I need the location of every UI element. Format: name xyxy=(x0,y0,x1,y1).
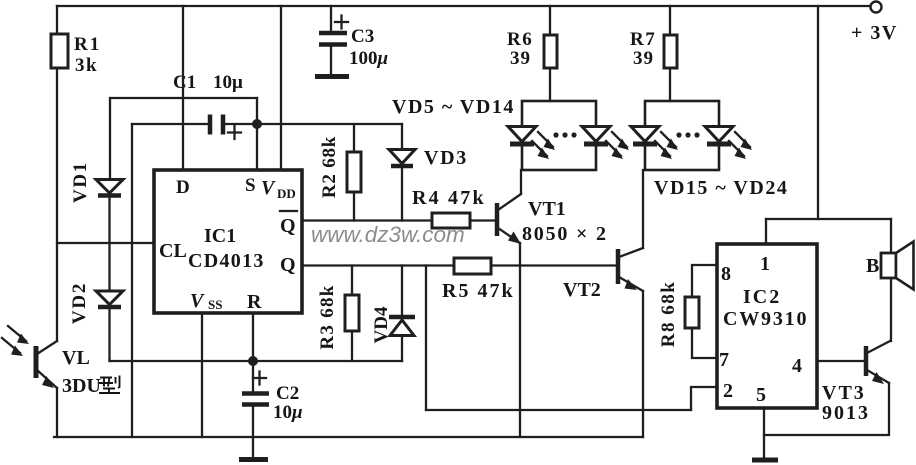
LED VD24 xyxy=(705,127,733,142)
wire VT1 collector to LED box1 xyxy=(520,170,522,193)
op-amp IC1 CD4013 box xyxy=(154,170,302,313)
svg-text:VT3: VT3 xyxy=(822,382,866,404)
wire R7 to LED box2 xyxy=(669,68,671,101)
diode VD3 xyxy=(401,124,403,148)
svg-text:7: 7 xyxy=(719,349,729,371)
wire R6 from rail xyxy=(549,6,551,35)
transistor VT3 xyxy=(864,346,869,376)
wire R5 to VT2 base xyxy=(491,264,616,266)
wire speaker to VT3 collector xyxy=(890,278,892,341)
capacitor C3 xyxy=(330,6,332,30)
wire pin2 stub xyxy=(691,387,717,410)
wire horizontal run to IC2 pin 2 xyxy=(426,409,691,411)
resistor R1 xyxy=(51,34,68,68)
svg-text:CL: CL xyxy=(159,240,187,262)
svg-text:VD5 ~ VD14: VD5 ~ VD14 xyxy=(392,96,515,118)
wire VT3 emitter to pin5 net xyxy=(764,383,889,435)
transistor VT1 xyxy=(495,203,500,236)
svg-text:VD15 ~ VD24: VD15 ~ VD24 xyxy=(654,177,788,199)
LED VD5 xyxy=(508,127,536,142)
wire R8 to pin7 xyxy=(692,328,717,358)
glyph 型 (hand drawn strokes) xyxy=(99,376,120,394)
wire VT1 emitter to ground rail xyxy=(519,243,521,437)
ground bar under C3 xyxy=(315,74,349,79)
svg-text:VD1: VD1 xyxy=(70,161,91,203)
svg-text:VL: VL xyxy=(62,347,90,369)
diode VD2 xyxy=(96,291,123,305)
ground bar under IC2 xyxy=(752,458,778,463)
ground bar under C2 xyxy=(239,457,268,462)
svg-text:VD4: VD4 xyxy=(371,306,392,343)
capacitor C1 xyxy=(132,123,207,125)
wire Q output to R5 xyxy=(302,264,454,266)
wire pin1 stub xyxy=(765,219,767,244)
svg-text:R5 47k: R5 47k xyxy=(442,280,515,302)
wire R3 branch xyxy=(351,266,353,296)
resistor R6 xyxy=(544,35,557,68)
wire VT2 emitter to ground rail xyxy=(642,291,644,437)
svg-text:R4 47k: R4 47k xyxy=(412,187,486,209)
wire left vertical rail to R1 xyxy=(56,6,58,34)
wire Q net down-branch to pin2 run xyxy=(425,266,427,411)
wire R6 to LED box1 xyxy=(549,68,551,101)
svg-text:www.dz3w.com: www.dz3w.com xyxy=(311,222,465,247)
wire speaker top lead xyxy=(890,219,892,253)
svg-text:IC1: IC1 xyxy=(204,225,236,247)
svg-text:R3 68k: R3 68k xyxy=(317,284,338,349)
wire R pin stub xyxy=(252,313,254,361)
wire VT2 collector to LED box2 xyxy=(642,170,644,248)
wire R2 bottom to Qbar net xyxy=(353,192,355,221)
wire pin4 to VT3 base xyxy=(817,360,864,362)
diode VD1 xyxy=(96,180,123,194)
transistor VT2 xyxy=(616,249,621,284)
svg-text:SS: SS xyxy=(208,297,222,312)
resistor R8 xyxy=(685,297,699,328)
wire R7 from rail xyxy=(669,6,671,35)
svg-text:D: D xyxy=(176,177,190,198)
svg-text:CW9310: CW9310 xyxy=(723,308,808,330)
node junction C1/S xyxy=(252,119,262,129)
svg-text:+ 3V: + 3V xyxy=(851,22,898,44)
svg-text:4: 4 xyxy=(792,355,802,377)
svg-text:2: 2 xyxy=(723,380,733,402)
wire R4 to VT1 base xyxy=(470,219,495,221)
svg-text:100μ: 100μ xyxy=(349,48,388,69)
wire top +3V rail xyxy=(57,5,870,7)
LED group box VD15~VD24 xyxy=(645,101,719,170)
svg-text:C3: C3 xyxy=(351,26,374,47)
diode VD4 xyxy=(401,266,403,316)
svg-text:10μ: 10μ xyxy=(213,72,243,93)
svg-text:9013: 9013 xyxy=(822,402,870,424)
wire R2 branch from S net xyxy=(257,124,402,152)
svg-text:CD4013: CD4013 xyxy=(188,250,265,272)
svg-text:5: 5 xyxy=(756,384,766,406)
dots box2 xyxy=(676,132,681,137)
svg-text:C2: C2 xyxy=(276,383,299,404)
svg-text:VT2: VT2 xyxy=(563,279,601,301)
dots box1 xyxy=(553,132,558,137)
svg-text:39: 39 xyxy=(633,48,654,69)
wire bottom ground rail xyxy=(54,436,643,438)
svg-text:R: R xyxy=(247,291,262,313)
wire reset net horizontal xyxy=(110,360,403,362)
svg-text:VT1: VT1 xyxy=(528,198,566,220)
wire VD2 down to reset net xyxy=(108,309,110,361)
wire VL emitter to ground rail xyxy=(56,388,58,437)
svg-text:3k: 3k xyxy=(75,55,98,76)
svg-text:8: 8 xyxy=(721,263,731,285)
wire pin8 stub xyxy=(692,265,717,297)
svg-text:VD2: VD2 xyxy=(69,282,90,324)
wire R3 bottom xyxy=(351,331,353,361)
svg-text:V: V xyxy=(261,177,276,199)
svg-text:10μ: 10μ xyxy=(273,402,303,423)
svg-text:R8 68k: R8 68k xyxy=(658,281,679,348)
wire pin5 stub xyxy=(763,408,765,458)
wire C1 left plate down to ground rail xyxy=(131,124,133,437)
LED group box VD5~VD14 xyxy=(522,101,596,170)
svg-text:DD: DD xyxy=(277,186,296,201)
wire VD1 to VD2 xyxy=(108,196,110,290)
node junction R/C2 xyxy=(248,356,258,366)
wire VDD pin from rail xyxy=(280,6,282,170)
wire pin1/speaker net xyxy=(766,218,891,220)
wire S pin vertical xyxy=(256,98,258,170)
speaker B xyxy=(881,253,896,278)
svg-text:1: 1 xyxy=(760,253,770,275)
svg-text:Q: Q xyxy=(280,215,296,237)
wire VSS pin down to ground rail xyxy=(201,313,203,437)
wire R1 bottom down to CL node and VL collector xyxy=(56,68,58,341)
wire CL from left rail to IC1 xyxy=(57,242,154,244)
svg-text:R6: R6 xyxy=(507,29,533,50)
op-amp IC2 CW9310 box xyxy=(717,244,817,408)
wire top feed to audio section xyxy=(817,6,819,219)
LED VD14 xyxy=(582,127,610,142)
resistor R5 xyxy=(454,258,491,274)
svg-text:Q: Q xyxy=(280,254,296,276)
svg-text:R1: R1 xyxy=(74,34,101,55)
svg-text:V: V xyxy=(190,290,205,312)
resistor R2 xyxy=(347,152,361,192)
resistor R3 xyxy=(345,295,359,331)
svg-text:VD3: VD3 xyxy=(424,147,468,169)
svg-text:C1: C1 xyxy=(173,72,196,93)
wire Qbar output to R4 xyxy=(302,219,432,221)
phototransistor VL xyxy=(34,346,39,378)
svg-text:8050 × 2: 8050 × 2 xyxy=(522,223,608,245)
svg-text:S: S xyxy=(245,175,256,196)
svg-text:R7: R7 xyxy=(630,29,656,50)
wire VD1 top link to S node xyxy=(110,98,257,178)
svg-text:B: B xyxy=(866,255,879,277)
svg-text:39: 39 xyxy=(510,48,531,69)
svg-text:IC2: IC2 xyxy=(743,286,781,308)
LED VD15 xyxy=(631,127,659,142)
capacitor C2 xyxy=(252,361,254,391)
terminal +3V xyxy=(871,2,882,13)
wire D pin from rail xyxy=(182,6,184,170)
resistor R4 xyxy=(432,213,470,228)
resistor R7 xyxy=(664,35,677,68)
svg-text:R2 68k: R2 68k xyxy=(319,136,340,198)
svg-text:3DU: 3DU xyxy=(62,375,101,397)
